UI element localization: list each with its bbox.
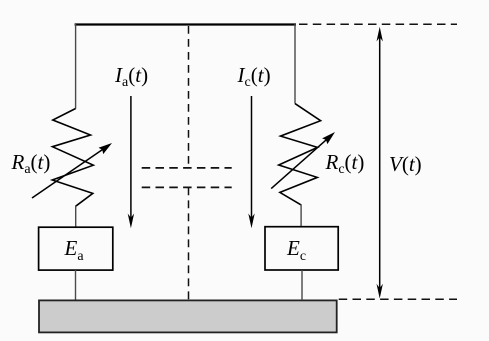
- wire middle dashed upper: [188, 26, 190, 168]
- wire left branch top: [75, 24, 77, 109]
- svg-text:Ic(t): Ic(t): [237, 63, 271, 90]
- wire R_a to box E_a: [75, 206, 77, 228]
- wire R_c to box E_c: [300, 204, 302, 227]
- wire E_a to electrode: [75, 270, 77, 300]
- wire top dashed extension: [299, 23, 457, 25]
- resistor R_a variable arrow: [32, 143, 112, 198]
- resistor R_c variable arrow: [271, 132, 335, 189]
- box E_a: [39, 227, 113, 270]
- wire right branch top: [294, 24, 296, 104]
- wire top rail: [75, 23, 296, 25]
- svg-text:Ia(t): Ia(t): [114, 63, 148, 90]
- resistor R_c zigzag: [279, 104, 321, 205]
- resistor R_a zigzag: [52, 109, 93, 207]
- svg-text:V(t): V(t): [389, 152, 422, 176]
- wire middle dashed lower: [188, 187, 190, 300]
- svg-text:Ra(t): Ra(t): [11, 150, 51, 177]
- current arrow I_a: [128, 96, 134, 228]
- wire bottom dashed: [339, 298, 457, 300]
- box E_c: [265, 227, 338, 270]
- capacitor plate lower dashed: [142, 186, 232, 188]
- capacitor plate upper dashed: [142, 167, 232, 169]
- wire E_c to electrode: [301, 270, 303, 300]
- current arrow I_c: [248, 96, 254, 228]
- electrode plate: [39, 300, 337, 332]
- voltage double arrow V: [377, 27, 383, 299]
- svg-text:Rc(t): Rc(t): [325, 150, 365, 177]
